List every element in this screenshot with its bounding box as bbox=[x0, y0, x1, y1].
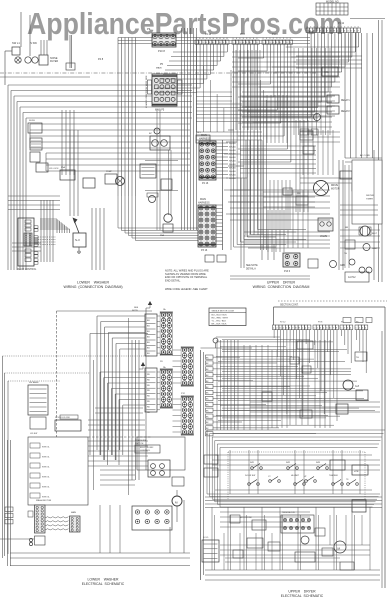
svg-text:DOOR LID SW: DOOR LID SW bbox=[55, 417, 71, 419]
svg-text:NOTE: NOTE bbox=[132, 310, 138, 312]
svg-text:PRESSURE: PRESSURE bbox=[135, 440, 147, 442]
svg-text:AppliancePartsPros.com: AppliancePartsPros.com bbox=[27, 6, 343, 41]
svg-text:BU - BLU / BLK: BU - BLU / BLK bbox=[212, 315, 228, 317]
svg-text:P1 12: P1 12 bbox=[338, 23, 345, 25]
svg-text:WTR LVL: WTR LVL bbox=[42, 467, 50, 469]
svg-text:LOWER WASHER: LOWER WASHER bbox=[77, 281, 109, 285]
svg-text:SW BANK: SW BANK bbox=[29, 381, 39, 384]
svg-text:HARNESS: HARNESS bbox=[198, 202, 210, 205]
svg-text:ELECTRICAL SCHEMATIC: ELECTRICAL SCHEMATIC bbox=[281, 594, 324, 598]
svg-text:MAIN: MAIN bbox=[156, 67, 162, 70]
svg-text:ELECTRONIC: ELECTRONIC bbox=[140, 447, 154, 449]
svg-text:BR: BR bbox=[345, 227, 348, 229]
svg-text:W: W bbox=[199, 38, 201, 40]
svg-text:SEE: SEE bbox=[134, 307, 139, 309]
svg-text:P9: P9 bbox=[147, 27, 151, 31]
svg-text:WTR LVL: WTR LVL bbox=[42, 487, 50, 489]
svg-text:WTR LVL: WTR LVL bbox=[42, 477, 50, 479]
svg-text:W: W bbox=[219, 38, 221, 40]
svg-text:P2 12: P2 12 bbox=[280, 322, 286, 324]
svg-text:LID LOCK: LID LOCK bbox=[49, 168, 59, 170]
svg-text:P4 8: P4 8 bbox=[98, 58, 104, 61]
svg-text:HTR: HTR bbox=[354, 471, 359, 473]
svg-text:RELAY2: RELAY2 bbox=[341, 110, 350, 113]
svg-text:P13 6: P13 6 bbox=[284, 271, 291, 273]
svg-text:P2 16: P2 16 bbox=[202, 182, 209, 185]
svg-text:LOADED VIEW FROM WIRE SIDE: LOADED VIEW FROM WIRE SIDE bbox=[145, 75, 148, 108]
svg-text:P3 16: P3 16 bbox=[201, 249, 208, 252]
svg-text:P8 8: P8 8 bbox=[240, 34, 245, 36]
svg-text:THERMO: THERMO bbox=[329, 475, 338, 477]
svg-text:SEE NOTE: SEE NOTE bbox=[246, 265, 258, 267]
svg-text:DRIVE: DRIVE bbox=[331, 185, 338, 187]
svg-text:WH-BU: WH-BU bbox=[229, 157, 236, 159]
svg-text:MACH CONTROL: MACH CONTROL bbox=[17, 268, 37, 271]
svg-text:W: W bbox=[206, 38, 208, 40]
svg-text:UPPER DRYER: UPPER DRYER bbox=[288, 590, 316, 594]
svg-text:MOTOR SW: MOTOR SW bbox=[240, 517, 252, 519]
svg-text:W: W bbox=[213, 38, 215, 40]
svg-text:GRN: GRN bbox=[340, 265, 345, 267]
svg-text:WH-BU: WH-BU bbox=[229, 161, 236, 163]
svg-text:TIMER: TIMER bbox=[366, 199, 373, 201]
svg-text:MAIN: MAIN bbox=[71, 511, 77, 514]
svg-text:P11 8: P11 8 bbox=[272, 34, 279, 36]
svg-text:RELAY1: RELAY1 bbox=[341, 99, 350, 102]
svg-text:WIRING (CONNECTION DIAGRAM): WIRING (CONNECTION DIAGRAM) bbox=[63, 285, 122, 289]
svg-text:DOOR SW: DOOR SW bbox=[245, 475, 255, 477]
svg-text:LID SW: LID SW bbox=[30, 433, 37, 435]
svg-text:SJ L5: SJ L5 bbox=[203, 537, 209, 539]
svg-text:WH-BU: WH-BU bbox=[229, 164, 236, 166]
svg-text:P5A: P5A bbox=[61, 166, 66, 169]
svg-text:WASH MOTOR: WASH MOTOR bbox=[36, 499, 52, 502]
svg-text:W: W bbox=[202, 38, 204, 40]
svg-text:END DETAIL.: END DETAIL. bbox=[165, 278, 181, 282]
svg-text:N SW: N SW bbox=[30, 41, 37, 45]
svg-text:TH: TH bbox=[356, 357, 359, 359]
svg-text:SW3: SW3 bbox=[316, 462, 320, 464]
svg-text:MOTOR: MOTOR bbox=[331, 189, 340, 191]
svg-text:PUMP: PUMP bbox=[106, 171, 113, 173]
svg-text:W: W bbox=[196, 38, 198, 40]
svg-text:WTR LVL: WTR LVL bbox=[42, 497, 50, 499]
svg-text:W: W bbox=[223, 38, 225, 40]
svg-text:SINGLE MOTOR CODE: SINGLE MOTOR CODE bbox=[212, 311, 235, 313]
svg-text:WIRING CONNECTION DIAGRAM: WIRING CONNECTION DIAGRAM bbox=[253, 285, 310, 289]
svg-text:AC CORD: AC CORD bbox=[360, 154, 371, 157]
svg-text:P10 8: P10 8 bbox=[158, 49, 165, 53]
svg-text:RLY: RLY bbox=[197, 132, 202, 134]
svg-text:WH-BU: WH-BU bbox=[229, 175, 236, 177]
svg-text:WTR LVL: WTR LVL bbox=[42, 457, 50, 459]
svg-text:SW L1: SW L1 bbox=[12, 41, 20, 45]
svg-text:DETAIL A: DETAIL A bbox=[246, 268, 256, 271]
svg-text:A1 P12: A1 P12 bbox=[348, 276, 356, 279]
svg-text:BK - BLK / BLK: BK - BLK / BLK bbox=[212, 324, 227, 326]
svg-text:P8A: P8A bbox=[160, 234, 165, 237]
svg-text:WH-BU: WH-BU bbox=[229, 147, 236, 149]
svg-text:S-3: S-3 bbox=[75, 238, 80, 242]
svg-text:W: W bbox=[226, 38, 228, 40]
svg-text:WTR LVL: WTR LVL bbox=[42, 447, 50, 449]
svg-text:SECTION CONT.: SECTION CONT. bbox=[280, 304, 299, 307]
svg-text:LAMP: LAMP bbox=[372, 247, 378, 250]
svg-text:VALVE: VALVE bbox=[320, 235, 328, 238]
svg-text:W: W bbox=[216, 38, 218, 40]
svg-text:P4 16: P4 16 bbox=[205, 34, 212, 36]
svg-text:WIRE CODE LEGEND -SEE CHART: WIRE CODE LEGEND -SEE CHART bbox=[165, 287, 208, 291]
svg-text:TERM BLOCK: TERM BLOCK bbox=[282, 512, 296, 514]
svg-text:WH-BU: WH-BU bbox=[229, 150, 236, 152]
svg-text:G-8: G-8 bbox=[355, 385, 360, 388]
svg-text:SUDS: SUDS bbox=[29, 120, 35, 122]
svg-text:WH-BU: WH-BU bbox=[229, 178, 236, 180]
svg-text:CN1: CN1 bbox=[324, 71, 329, 74]
svg-text:WH-BU: WH-BU bbox=[229, 143, 236, 145]
svg-text:DRYER: DRYER bbox=[366, 195, 374, 197]
svg-text:BELT: BELT bbox=[372, 233, 378, 235]
svg-text:YL - YEL / BLK: YL - YEL / BLK bbox=[212, 321, 227, 323]
svg-text:WH-BU: WH-BU bbox=[229, 168, 236, 170]
svg-text:SW2: SW2 bbox=[286, 462, 290, 464]
svg-text:LOWER WASHER: LOWER WASHER bbox=[88, 578, 120, 582]
svg-text:FILTER: FILTER bbox=[50, 60, 58, 63]
svg-text:W: W bbox=[209, 38, 211, 40]
svg-text:HI-LIMIT: HI-LIMIT bbox=[291, 475, 300, 477]
svg-text:TH: TH bbox=[344, 253, 347, 255]
svg-text:WH-BU: WH-BU bbox=[229, 171, 236, 173]
svg-text:RD - RED / WHT: RD - RED / WHT bbox=[212, 318, 229, 320]
svg-text:ELECTRICAL SCHEMATIC: ELECTRICAL SCHEMATIC bbox=[82, 582, 125, 586]
svg-text:UPPER DRYER: UPPER DRYER bbox=[267, 281, 296, 285]
svg-text:SW1: SW1 bbox=[250, 462, 254, 464]
